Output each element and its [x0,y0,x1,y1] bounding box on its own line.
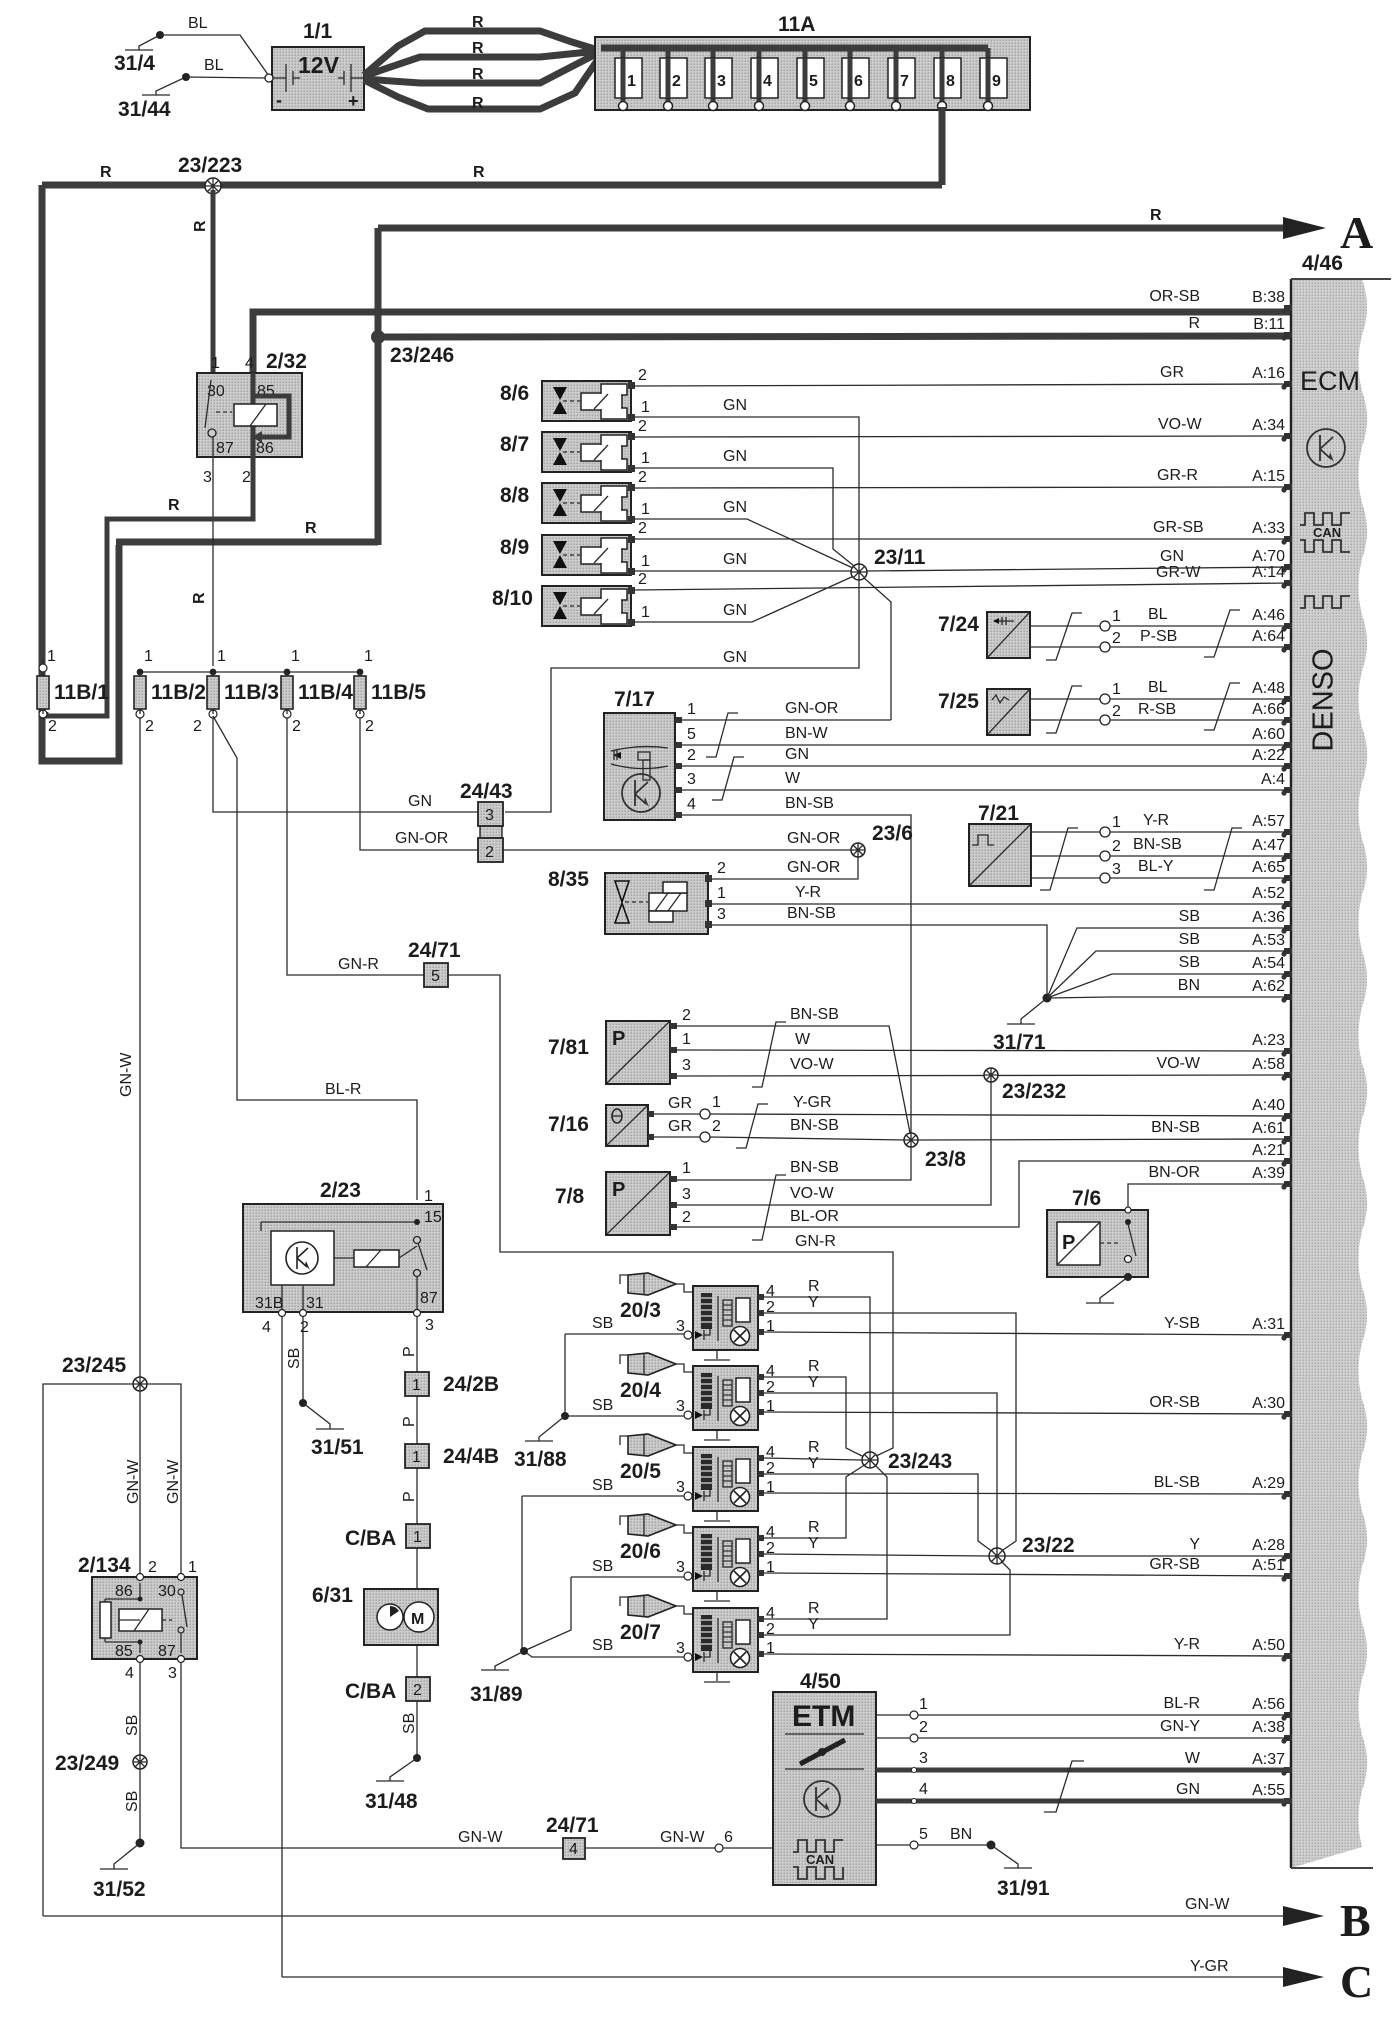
svg-text:C/BA: C/BA [345,1680,396,1703]
svg-text:1: 1 [712,1094,721,1111]
svg-text:15: 15 [424,1209,442,1226]
svg-text:2: 2 [413,1682,422,1699]
shield slash 7/17 pins2-3 [712,757,744,800]
svg-text:24/4B: 24/4B [443,1445,499,1468]
svg-text:BN-SB: BN-SB [790,1159,839,1176]
svg-text:CAN: CAN [1313,525,1341,540]
svg-text:R: R [808,1519,820,1536]
svg-text:BN-OR: BN-OR [1148,1164,1200,1181]
injector 8/6 [500,381,635,421]
svg-text:GN-R: GN-R [338,956,379,973]
svg-text:B: B [1340,1895,1371,1946]
svg-text:1: 1 [47,648,56,665]
svg-text:5: 5 [809,73,818,90]
svg-text:4: 4 [919,1781,928,1798]
wire C/BA1 to 6/31 [416,1548,418,1589]
wire GN-W 23/245 to 2/134 pin1 [147,1384,182,1577]
svg-text:1: 1 [144,648,153,665]
svg-text:1: 1 [682,1031,691,1048]
svg-text:7/21: 7/21 [978,802,1019,825]
svg-text:Y: Y [808,1455,819,1472]
svg-text:7: 7 [900,73,909,90]
svg-text:4: 4 [245,355,254,372]
svg-text:8/8: 8/8 [500,484,530,507]
svg-text:3: 3 [717,73,726,90]
svg-text:1: 1 [687,701,696,718]
wire GN-W to arrow B [43,1896,1286,1916]
svg-text:85: 85 [115,1643,133,1660]
svg-text:A:33: A:33 [1252,520,1285,537]
wire GN-R 11B/4 to 24/71-5 [287,718,424,975]
wire R 23/243 to 20/6 pin4 [764,1464,866,1538]
svg-text:9: 9 [992,73,1001,90]
wire BN-W 7/17 pin5 to A:60 [682,725,1290,745]
svg-text:BL-OR: BL-OR [790,1208,839,1225]
ground 31/88 [514,1412,569,1471]
injector 8/7 [500,432,635,472]
wire R 23/223 down to 2/32 pin30 [192,190,213,373]
ground 31/89 [470,1647,528,1706]
wire R 20/5 pin4 to 23/243 [764,1439,862,1460]
svg-text:31B: 31B [255,1295,283,1312]
svg-text:31/88: 31/88 [514,1448,567,1471]
wire VO-W 7/81 pin3 to 23/232 and A:58 [677,1056,1290,1076]
wire R 2/32 pin86 down-left to 11B/1 pin2 [46,457,253,716]
arrow C [1283,1956,1373,2007]
wire BN-OR 7/6 to A:39 [1125,1184,1290,1213]
svg-text:A:29: A:29 [1252,1475,1285,1492]
svg-text:BN-SB: BN-SB [1133,836,1182,853]
svg-text:R: R [472,66,484,83]
svg-text:4: 4 [763,73,772,90]
wire GN 8/7 pin1 to 23/11 [634,448,859,570]
svg-text:3: 3 [919,1750,928,1767]
svg-text:2: 2 [300,1319,309,1336]
node 23/245 [62,1354,147,1391]
svg-text:2/134: 2/134 [78,1554,131,1577]
svg-text:GN-OR: GN-OR [395,830,448,847]
svg-text:2: 2 [712,1118,721,1135]
svg-text:4: 4 [262,1319,271,1336]
fuse 11B/2 [134,648,206,735]
wire BL 31/44 to battery [186,57,266,78]
svg-text:A:21: A:21 [1252,1142,1285,1159]
shield slash 7/81 [752,1022,786,1087]
svg-text:2: 2 [148,1559,157,1576]
sensor 7/25 [938,689,1030,735]
wire GN-R 24/71-5 to 23/243 [448,975,893,1457]
svg-text:A:58: A:58 [1252,1056,1285,1073]
svg-text:GN: GN [723,499,747,516]
wire BL-R ETM pin1 to A:56 [876,1696,1290,1719]
svg-text:4/50: 4/50 [800,1670,841,1693]
wire W 7/81 pin1 to A:23 [677,1031,1290,1051]
ECM pin stubs [1281,305,1292,1807]
ignition coil 20/6 [620,1514,775,1601]
svg-text:6: 6 [854,73,863,90]
svg-text:DENSO: DENSO [1308,648,1340,751]
svg-text:A:60: A:60 [1252,726,1285,743]
svg-text:1: 1 [413,1529,422,1546]
svg-text:A:39: A:39 [1252,1165,1285,1182]
wire GN 8/10 pin1 to 23/11 [634,575,856,622]
node 23/6 [851,822,913,857]
wire R 23/246 to ECM B:11 [378,336,1290,337]
node 23/246 [371,330,454,367]
battery 1/1 [265,20,364,111]
wire R loop to 23/246 riser [116,520,378,542]
svg-text:23/243: 23/243 [888,1450,952,1473]
svg-text:86: 86 [256,440,274,457]
svg-text:GN-OR: GN-OR [785,700,838,717]
wire R main bus y185 [42,164,942,185]
svg-text:VO-W: VO-W [1158,416,1202,433]
svg-text:2: 2 [292,718,301,735]
svg-text:2: 2 [638,418,647,435]
node 23/232 [984,1068,1066,1103]
svg-text:1: 1 [627,73,636,90]
svg-text:SB: SB [1179,931,1200,948]
svg-text:A:61: A:61 [1252,1120,1285,1137]
svg-text:87: 87 [216,440,234,457]
svg-text:A:56: A:56 [1252,1696,1285,1713]
wire GN-OR 8/35 pin2 label [717,859,840,877]
svg-text:8/6: 8/6 [500,382,529,405]
wire GN 23/11 down to 24/43-3 [505,580,859,812]
svg-text:A:57: A:57 [1252,813,1285,830]
svg-text:3: 3 [717,906,726,923]
svg-text:1/1: 1/1 [303,20,333,43]
svg-text:R: R [192,220,209,232]
ground 31/44 [118,73,190,121]
ignition coil 20/4 [620,1353,775,1440]
svg-text:8/7: 8/7 [500,433,529,456]
wire GN 8/6 pin1 to 23/11 [634,397,859,564]
svg-text:A:48: A:48 [1252,680,1285,697]
ground 31/91 [987,1841,1050,1901]
wire Y-SB 20/3 pin1 to A:31 [764,1332,1290,1335]
svg-text:31/44: 31/44 [118,98,171,121]
svg-text:23/22: 23/22 [1022,1534,1075,1557]
svg-text:7/16: 7/16 [548,1113,589,1136]
svg-text:BN-SB: BN-SB [787,905,836,922]
svg-text:GN: GN [1176,1781,1200,1798]
wire Y 20/5 pin2 to 23/22 [764,1455,993,1552]
svg-text:5: 5 [687,726,696,743]
wire Y 20/6 pin2 to 23/22 [764,1535,989,1556]
wire SB 31/89 to 20/7 pin3 [524,1637,684,1657]
fuse 3 of 11A [705,48,732,111]
svg-text:+: + [348,91,359,111]
svg-text:2: 2 [638,367,647,384]
wire GN-OR 23/6 down to 8/35 pin2 [712,857,858,879]
svg-text:GR: GR [1160,364,1184,381]
fuse 11B/5 [354,648,426,735]
svg-text:1: 1 [919,1696,928,1713]
injector 8/8 [500,483,635,523]
wire Y-GR 2/23 pin4 down to arrow C [281,1317,283,1977]
wire BN ETM pin5 to 31/91 [876,1826,991,1849]
wire 7/25 pin2 R-SB to A:66 [1030,701,1290,725]
svg-text:31: 31 [306,1295,324,1312]
relay 2/134 [78,1554,197,1682]
wire SB C/BA2 to 31/48 [365,1701,421,1813]
wire 7/25 pin1 BL to A:48 [1030,679,1290,704]
shield slash 7/16 [736,1104,768,1148]
svg-text:SB: SB [1179,954,1200,971]
svg-text:P: P [401,1491,418,1502]
svg-text:1: 1 [424,1188,433,1205]
svg-text:R: R [808,1278,820,1295]
svg-text:1: 1 [641,604,650,621]
fuse 9 of 11A [980,48,1007,111]
svg-text:R: R [472,14,484,31]
svg-text:A: A [1340,207,1373,258]
svg-text:2: 2 [638,571,647,588]
sensor 7/81 [548,1021,677,1084]
junction 31/71 [1043,994,1052,1003]
sensor 7/24 [938,612,1030,658]
wire GN-OR 24/43-2 to 23/6 [503,830,854,850]
svg-text:8/35: 8/35 [548,868,589,891]
svg-text:P: P [612,1179,625,1201]
svg-text:GN-OR: GN-OR [787,859,840,876]
svg-text:31/48: 31/48 [365,1790,418,1813]
svg-text:1: 1 [1112,681,1121,698]
sensor 7/8 [555,1172,677,1235]
svg-text:R: R [1150,207,1162,224]
svg-text:A:70: A:70 [1252,548,1285,565]
wire Y-R 8/35 pin1 to A:52 [712,884,1290,904]
wire VO-W 23/232 down to 7/8 pin3 [677,1082,991,1205]
svg-text:BL-SB: BL-SB [1154,1474,1200,1491]
svg-text:1: 1 [188,1559,197,1576]
svg-text:R: R [168,497,180,514]
svg-text:A:31: A:31 [1252,1316,1285,1333]
svg-text:3: 3 [676,1640,685,1657]
wire GR-SB 8/9 pin2 to A:33 [634,519,1290,539]
svg-text:GN-OR: GN-OR [787,830,840,847]
svg-text:A:62: A:62 [1252,978,1285,995]
svg-text:Y-GR: Y-GR [1190,1958,1229,1975]
svg-text:VO-W: VO-W [1156,1055,1200,1072]
svg-text:1: 1 [1112,608,1121,625]
svg-text:P: P [401,1416,418,1427]
wire BN-SB 23/8 to A:61 [918,1139,1290,1140]
svg-text:3: 3 [676,1559,685,1576]
arrow B [1283,1895,1371,1946]
svg-text:1: 1 [412,1377,421,1394]
svg-text:A:34: A:34 [1252,417,1285,434]
svg-text:20/7: 20/7 [620,1621,661,1644]
svg-text:R: R [1188,315,1200,332]
svg-text:2: 2 [717,860,726,877]
svg-text:23/8: 23/8 [925,1148,966,1171]
svg-text:31/91: 31/91 [997,1877,1050,1900]
svg-text:SB: SB [286,1348,303,1369]
shield slash 7/21 right [1204,828,1242,890]
svg-text:4/46: 4/46 [1302,252,1343,275]
wire 7/21 pin3 BL-Y to A:65 [1031,858,1290,883]
svg-text:8: 8 [946,73,955,90]
fuse 8 of 11A [934,48,961,111]
wire R 23/243 to 20/7 pin4 [764,1464,887,1619]
svg-text:BN-SB: BN-SB [1151,1119,1200,1136]
wire GR-R 8/8 pin2 to A:15 [634,467,1290,488]
svg-text:1: 1 [291,648,300,665]
svg-text:C: C [1340,1956,1373,2007]
svg-text:GN: GN [1160,548,1184,565]
svg-text:3: 3 [1112,861,1121,878]
svg-text:2/32: 2/32 [266,350,307,373]
svg-text:R: R [191,592,208,604]
wire SB to A:54 [1047,974,1290,998]
svg-text:R: R [100,164,112,181]
wire R 20/4 pin4 to 23/243 [764,1358,866,1458]
svg-text:M: M [411,1611,424,1628]
svg-text:2: 2 [193,718,202,735]
sensor 7/17 [604,688,1335,820]
svg-text:GN: GN [785,746,809,763]
svg-text:7/8: 7/8 [555,1185,585,1208]
svg-text:86: 86 [115,1583,133,1600]
ECM 4/46 body [1291,252,1391,1868]
wire R 20/3 pin4 to 23/243 [764,1278,870,1452]
svg-text:A:16: A:16 [1252,365,1285,382]
node 23/22 [989,1534,1075,1564]
wire SB 2/23 pin2 to 31/51 [286,1317,364,1459]
connector 24/43 [460,780,513,862]
svg-text:2: 2 [145,718,154,735]
relay 2/32 [197,350,307,486]
svg-text:R: R [472,95,484,112]
svg-text:20/3: 20/3 [620,1299,661,1322]
svg-text:A:65: A:65 [1252,859,1285,876]
svg-text:23/245: 23/245 [62,1354,127,1377]
svg-text:24/2B: 24/2B [443,1373,499,1396]
wire SB 31/89 to 20/6 pin3 [571,1558,684,1577]
svg-text:12V: 12V [298,52,340,78]
svg-text:SB: SB [124,1791,141,1812]
svg-text:2: 2 [638,469,647,486]
shield slash 7/24 right [1204,610,1240,657]
wire Y 23/22 to A:28 [1005,1555,1290,1557]
connector C/BA 1 [345,1524,430,1550]
svg-text:VO-W: VO-W [790,1185,834,1202]
svg-text:A:66: A:66 [1252,701,1285,718]
wire GN-W 23/245 to 2/134 pin2 [125,1391,142,1577]
wire BN to A:62 [1047,997,1290,998]
svg-text:BN-SB: BN-SB [785,795,834,812]
svg-text:6: 6 [724,1829,733,1846]
sensor 7/21 [969,802,1031,886]
wire P 2/23 pin3 down chain [401,1317,418,1372]
svg-text:1: 1 [211,355,220,372]
svg-text:SB: SB [592,1637,613,1654]
wire GR-SB 20/6 pin1 to A:51 [764,1573,1290,1576]
wire GN 8/9 pin1 to 23/11 [634,551,851,571]
svg-text:BN-W: BN-W [785,725,829,742]
svg-text:7/81: 7/81 [548,1036,589,1059]
svg-text:2: 2 [242,469,251,486]
svg-text:A:4: A:4 [1261,771,1285,788]
fuse bus 11B/2..11B/5 [137,669,364,676]
svg-text:R: R [473,164,485,181]
svg-text:31/4: 31/4 [114,52,155,75]
svg-text:A:37: A:37 [1252,1751,1285,1768]
svg-text:A:30: A:30 [1252,1395,1285,1412]
wire SB to A:36 [1047,928,1290,998]
wire SB 31/88 to 20/3 pin3 [565,1315,684,1334]
wire OR-SB 2/32 pin85 to ECM B:38 [253,312,1290,373]
svg-text:GN-Y: GN-Y [1160,1718,1200,1735]
svg-text:GN-W: GN-W [118,1052,135,1097]
svg-text:A:47: A:47 [1252,837,1285,854]
svg-text:1: 1 [1112,814,1121,831]
svg-text:R: R [305,520,317,537]
wire BN-SB 7/17 pin4 to 23/8 [682,795,911,1136]
fuse 7 of 11A [888,48,915,111]
wire 11B/1 pin1 to thick bus [42,660,44,664]
wire W ETM pin3 to A:37 (thick) [876,1750,1290,1773]
wire SB 31/89 to 20/5 pin3 [522,1477,684,1496]
svg-text:SB: SB [592,1315,613,1332]
relay 2/23 [243,1179,443,1336]
svg-text:31/52: 31/52 [93,1878,146,1901]
svg-text:1: 1 [412,1449,421,1466]
svg-text:2: 2 [919,1719,928,1736]
svg-text:Y: Y [808,1535,819,1552]
svg-text:GR-SB: GR-SB [1149,1556,1200,1573]
svg-text:1: 1 [217,648,226,665]
svg-text:A:54: A:54 [1252,955,1285,972]
fuse 11B/1 [37,648,109,735]
wire GR-W 8/10 pin2 to A:14 [634,564,1290,590]
shield slash 7/24 left [1046,613,1082,660]
svg-text:BL-R: BL-R [1164,1695,1200,1712]
shield slash 7/21 left [1040,828,1078,890]
node 23/249 [55,1752,147,1775]
ECM CAN symbol [1300,513,1350,525]
wire R 2/32 pin87 down to 11B bus [191,437,213,666]
wire GR 7/16 pin2 to 23/8 [654,1117,907,1142]
svg-text:2/23: 2/23 [320,1179,361,1202]
svg-text:BL: BL [1148,606,1168,623]
wire GN 11B/3 to 24/43-3 [213,718,478,812]
svg-text:3: 3 [676,1318,685,1335]
throttle module 4/50 [773,1670,876,1885]
wire BN-SB 8/35 pin3 to 31/71 [712,905,1047,995]
svg-text:R: R [808,1439,820,1456]
wire GR 8/6 pin2 to A:16 [634,364,1290,386]
svg-text:A:46: A:46 [1252,607,1285,624]
svg-text:A:51: A:51 [1252,1557,1285,1574]
svg-text:ECM: ECM [1300,366,1360,396]
svg-text:20/6: 20/6 [620,1540,661,1563]
svg-text:GR: GR [668,1095,692,1112]
svg-text:B:38: B:38 [1252,289,1285,306]
svg-text:Y-R: Y-R [1174,1636,1200,1653]
svg-text:1: 1 [717,885,726,902]
svg-text:BL: BL [204,57,224,74]
wire P 24/4B to C/BA1 [401,1468,418,1524]
injector 8/9 [500,535,635,575]
svg-text:GN: GN [723,602,747,619]
wire SB 2/134 pin4 to 23/249 [124,1663,141,1755]
connector 24/71-4 [546,1814,599,1859]
svg-text:W: W [1185,1750,1201,1767]
svg-text:A:53: A:53 [1252,932,1285,949]
